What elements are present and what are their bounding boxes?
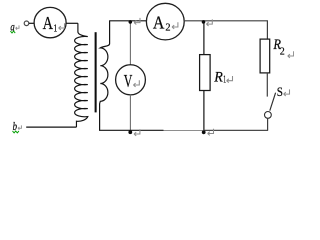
svg-text:b: b (13, 119, 17, 133)
svg-text:R: R (213, 70, 223, 86)
svg-text:1: 1 (223, 74, 226, 85)
svg-text:V: V (124, 71, 133, 91)
svg-text:2: 2 (165, 22, 170, 34)
svg-text:A: A (153, 12, 165, 32)
svg-text:S: S (277, 84, 283, 99)
svg-text:A: A (43, 13, 53, 33)
svg-text:1: 1 (53, 23, 57, 35)
svg-text:2: 2 (280, 45, 285, 57)
